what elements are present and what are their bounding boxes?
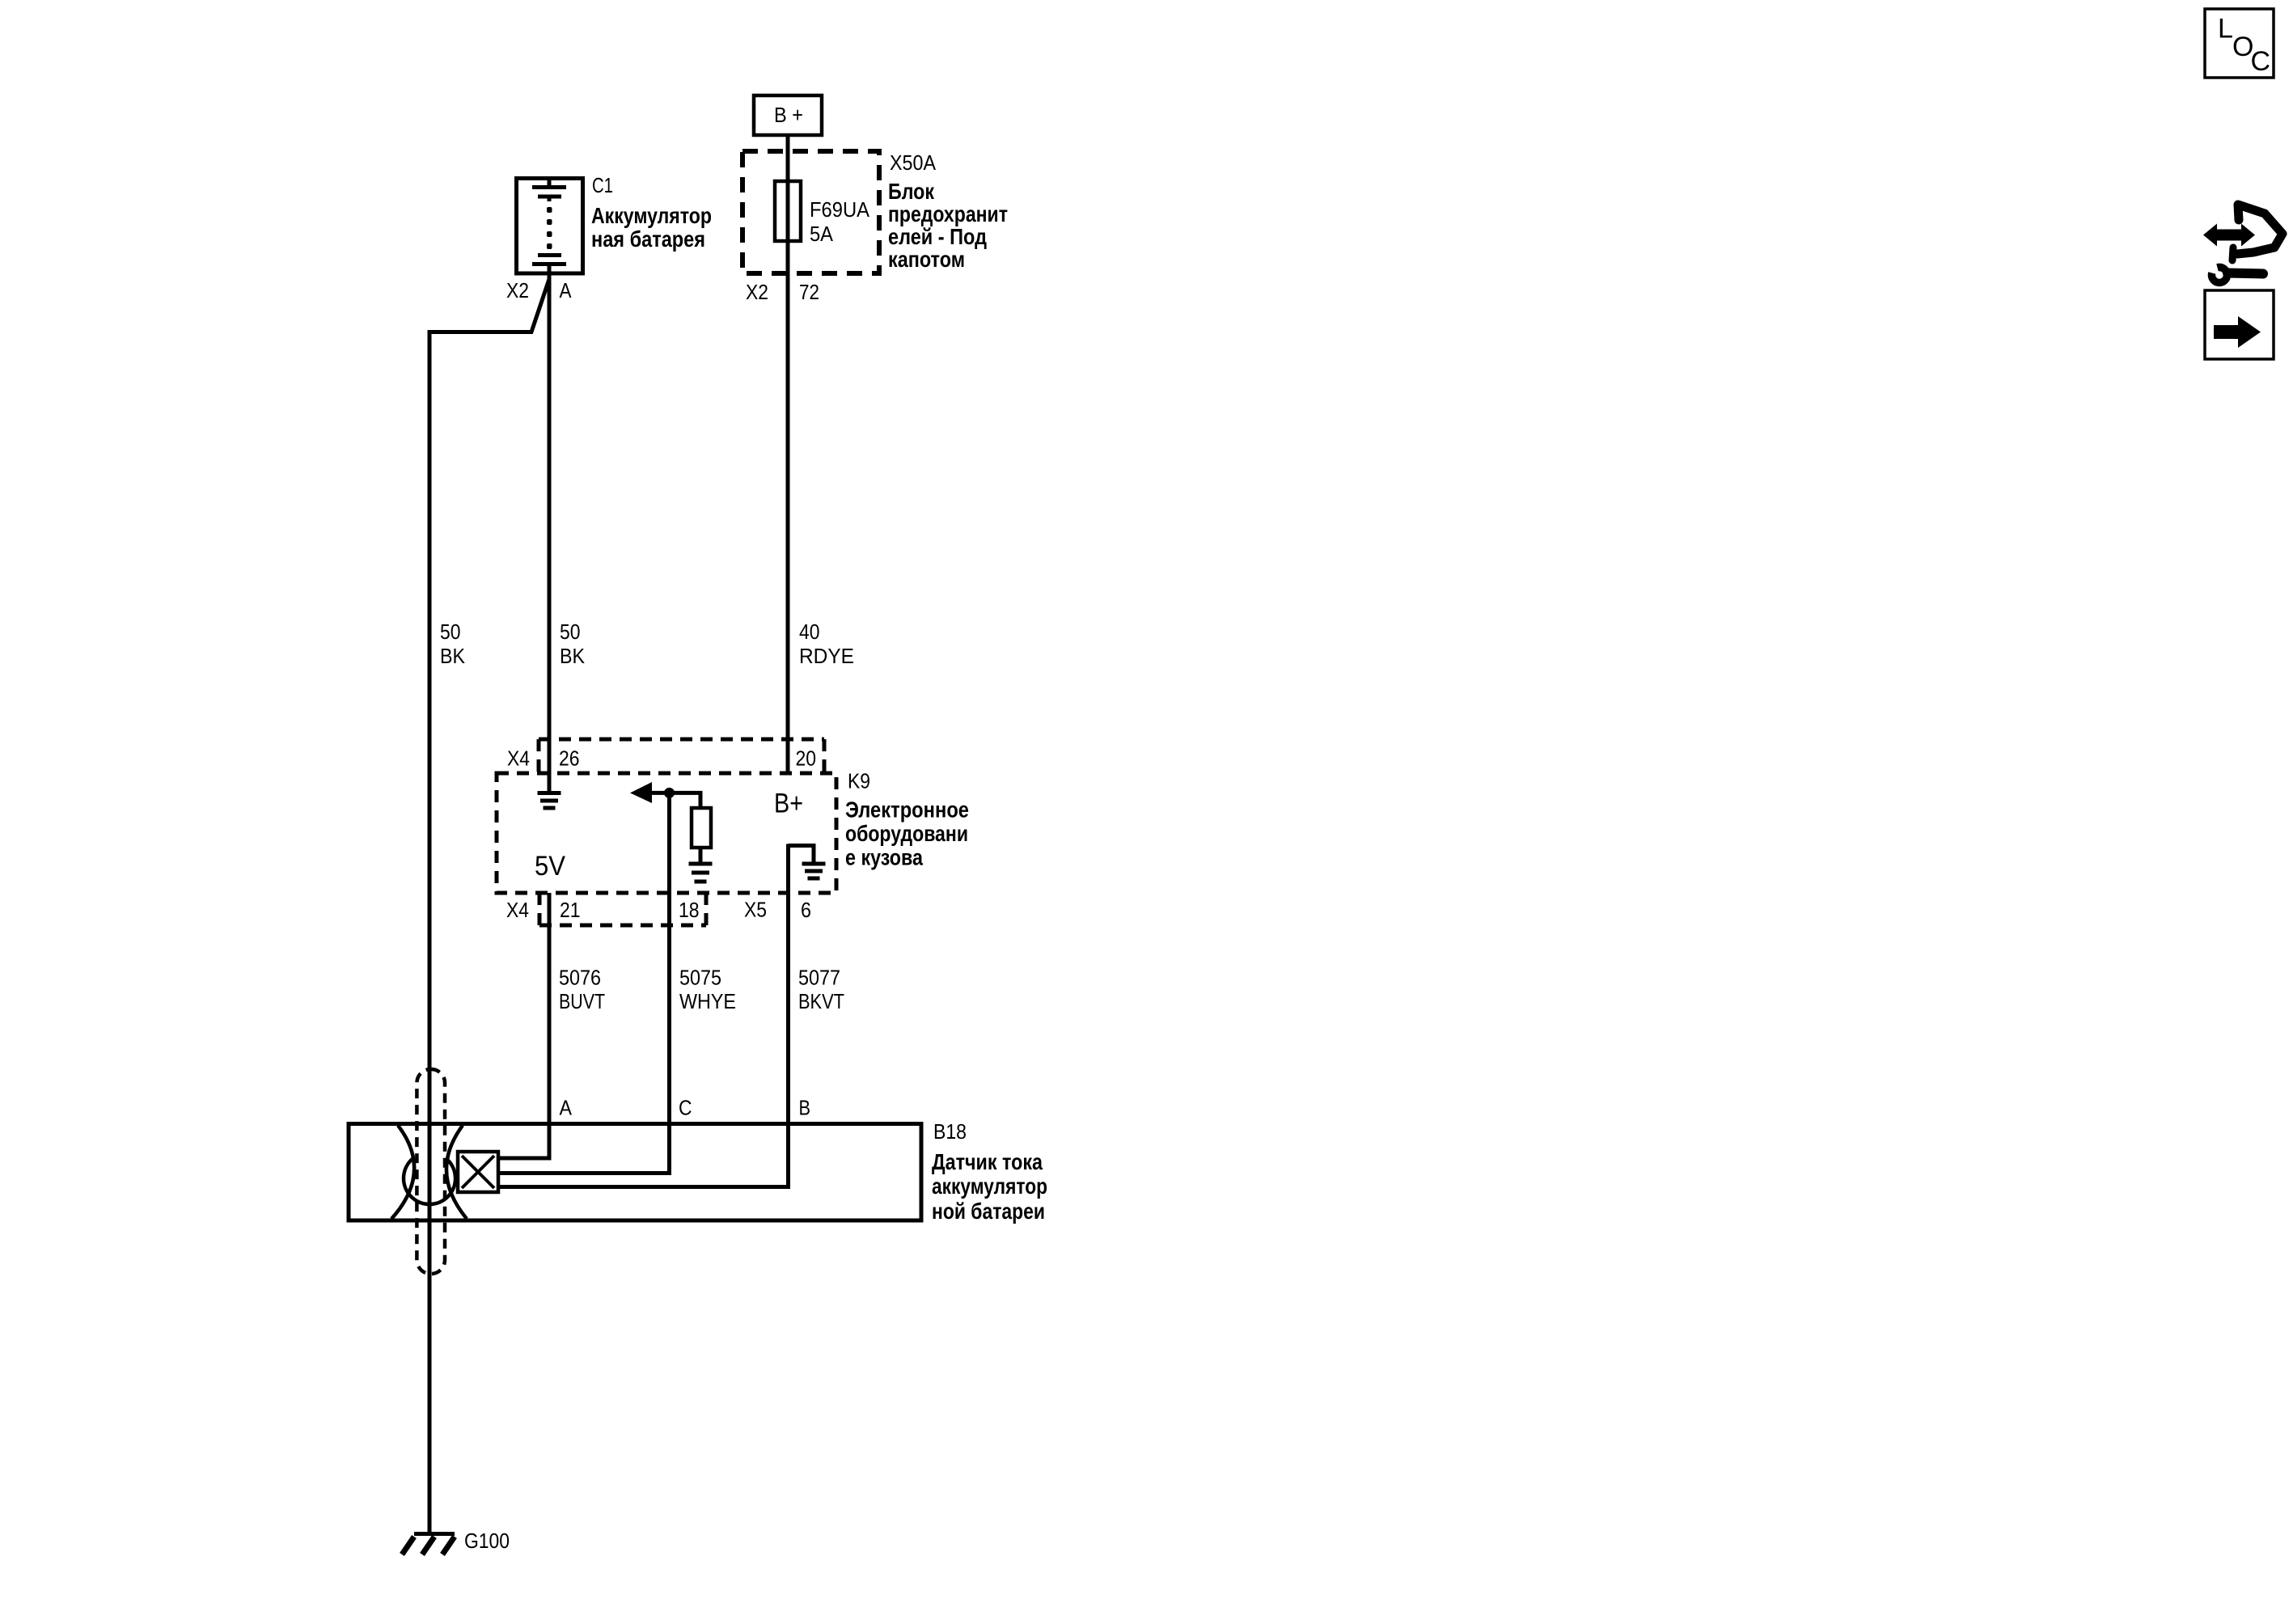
svg-text:5V: 5V <box>535 851 565 882</box>
svg-text:5077: 5077 <box>798 966 840 990</box>
fuse F69UA element <box>775 181 801 241</box>
svg-text:аккумулятор: аккумулятор <box>932 1174 1047 1199</box>
svg-text:BK: BK <box>440 644 466 668</box>
svg-text:Блок: Блок <box>888 179 935 204</box>
svg-text:B +: B + <box>774 103 803 127</box>
wire 40 RDYE (B+ to pin 20) <box>786 135 790 773</box>
svg-text:предохранит: предохранит <box>888 201 1008 226</box>
wire 50 BK left vertical to G100 <box>428 330 432 1533</box>
svg-text:WHYE: WHYE <box>679 989 736 1013</box>
svg-text:оборудовани: оборудовани <box>845 821 968 846</box>
svg-text:B: B <box>799 1096 811 1120</box>
svg-text:A: A <box>560 1096 573 1120</box>
svg-text:50: 50 <box>560 620 581 644</box>
B18 box <box>349 1124 921 1221</box>
svg-text:ной батареи: ной батареи <box>932 1199 1045 1224</box>
wire arrow to resistor top <box>652 793 700 810</box>
ground G100 chassis symbol <box>402 1534 455 1555</box>
svg-text:5076: 5076 <box>559 966 601 990</box>
svg-text:капотом: капотом <box>888 247 965 272</box>
hourglass curve right <box>446 1126 467 1220</box>
svg-text:26: 26 <box>559 746 580 771</box>
fuse block X50A dashed box <box>742 151 879 273</box>
K9 dashed box <box>497 773 836 893</box>
svg-text:5A: 5A <box>810 222 834 246</box>
svg-text:Датчик тока: Датчик тока <box>932 1149 1043 1174</box>
svg-text:5075: 5075 <box>679 966 721 990</box>
LOC icon box <box>2205 9 2274 78</box>
node junction dot <box>664 788 675 798</box>
battery C1 symbol plates <box>532 178 566 275</box>
svg-text:BKVT: BKVT <box>798 989 844 1013</box>
svg-text:X2: X2 <box>746 280 768 304</box>
svg-text:елей - Под: елей - Под <box>888 224 987 249</box>
svg-text:RDYE: RDYE <box>799 644 854 668</box>
wire 5077 BKVT (pin 6 to B18 pin B) <box>500 844 789 1187</box>
svg-text:X2: X2 <box>506 278 529 302</box>
battery C1 dotted middle <box>547 207 552 249</box>
svg-text:B+: B+ <box>774 789 803 819</box>
sensor X-box <box>458 1152 498 1192</box>
clamp circle arc <box>404 1159 455 1204</box>
B+ power box <box>754 95 822 135</box>
svg-text:G100: G100 <box>464 1529 510 1553</box>
svg-text:X50A: X50A <box>890 150 937 175</box>
svg-text:18: 18 <box>679 898 700 922</box>
wire 5076 BUVT (pin 21 to B18 pin A) <box>500 893 549 1158</box>
svg-text:Электронное: Электронное <box>845 797 969 823</box>
svg-text:L: L <box>2218 14 2233 44</box>
svg-text:е кузова: е кузова <box>845 845 923 870</box>
svg-text:X4: X4 <box>507 746 530 771</box>
connector X4 dashed box (top of K9) <box>539 739 824 773</box>
wire B+ internal bend to ground <box>789 846 814 865</box>
svg-text:X4: X4 <box>506 898 529 922</box>
svg-text:20: 20 <box>796 746 817 771</box>
svg-text:Аккумулятор: Аккумулятор <box>591 203 712 228</box>
svg-text:BK: BK <box>560 644 586 668</box>
connector X4 dashed box (bottom of K9) <box>539 893 706 925</box>
wire 5075 WHYE (junction to B18 pin C) <box>500 793 670 1174</box>
wire 50 BK (battery down to pin 26 / ground) <box>548 275 552 793</box>
svg-text:6: 6 <box>801 898 811 922</box>
resistor (internal) <box>692 808 711 848</box>
svg-text:A: A <box>560 278 573 302</box>
ground (below resistor) <box>689 864 713 882</box>
svg-text:C1: C1 <box>592 173 613 197</box>
dashed stadium around wire <box>417 1069 445 1274</box>
svg-text:C: C <box>679 1096 692 1120</box>
ground (pin 26 internal) <box>538 793 561 809</box>
connector repair icon (double arrow, harness, wrench) <box>2203 205 2282 282</box>
hourglass curve left <box>391 1126 414 1220</box>
battery C1 box <box>517 179 583 274</box>
svg-text:BUVT: BUVT <box>559 989 605 1013</box>
svg-text:F69UA: F69UA <box>810 197 870 222</box>
svg-text:X5: X5 <box>744 898 767 922</box>
forward arrow icon box <box>2205 290 2274 359</box>
svg-text:K9: K9 <box>848 769 870 793</box>
svg-text:40: 40 <box>799 620 820 644</box>
ground (internal right) <box>802 864 826 878</box>
svg-text:ная батарея: ная батарея <box>591 226 705 252</box>
svg-text:72: 72 <box>799 280 819 304</box>
wire resistor to ground <box>699 848 703 864</box>
svg-text:50: 50 <box>440 620 461 644</box>
svg-text:C: C <box>2251 46 2271 77</box>
svg-text:21: 21 <box>560 898 581 922</box>
svg-text:B18: B18 <box>933 1119 967 1144</box>
wire horizontal branch <box>429 330 533 334</box>
arrow (internal, points left) <box>630 782 652 803</box>
wire diagonal battery to left branch <box>531 279 549 332</box>
